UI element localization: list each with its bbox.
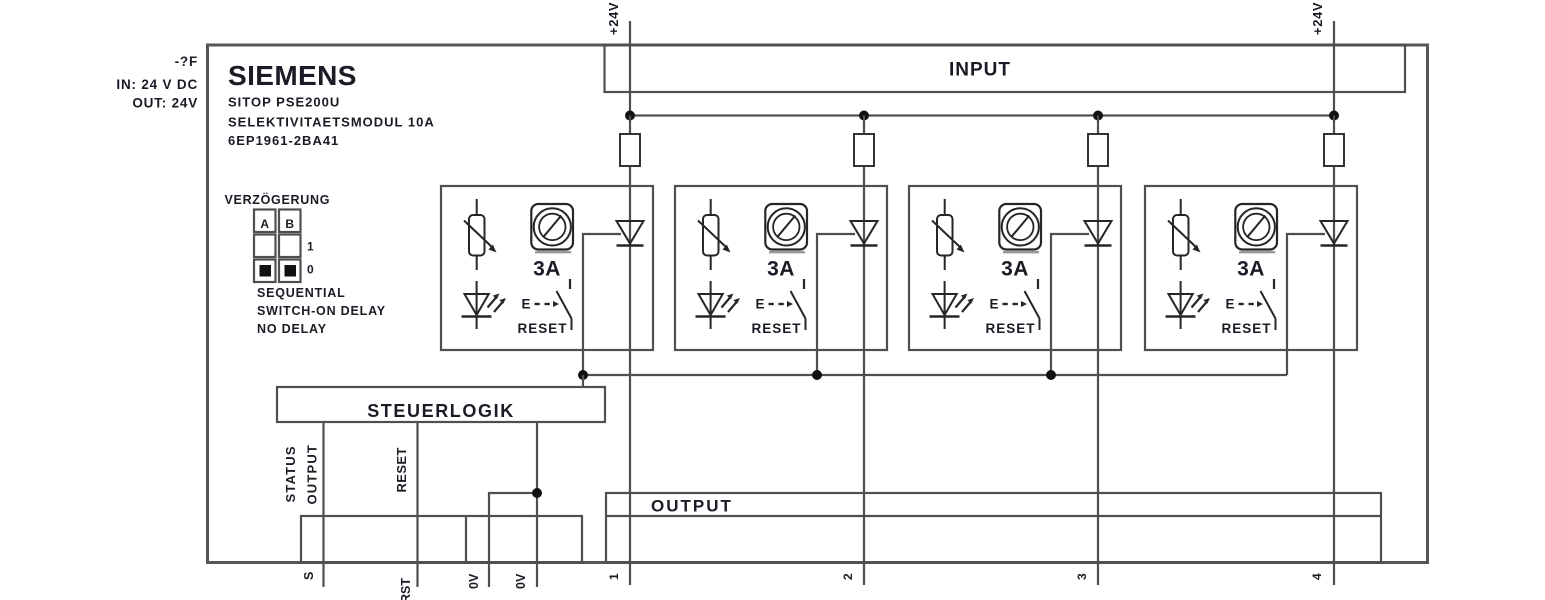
svg-text:3: 3 <box>1075 573 1089 580</box>
svg-text:OUTPUT: OUTPUT <box>305 444 320 505</box>
svg-text:1: 1 <box>307 240 314 254</box>
svg-text:OUTPUT: OUTPUT <box>651 497 733 516</box>
svg-text:4: 4 <box>1310 573 1324 580</box>
svg-text:STATUS: STATUS <box>283 445 298 502</box>
svg-text:SELEKTIVITAETSMODUL 10A: SELEKTIVITAETSMODUL 10A <box>228 115 435 130</box>
svg-text:OUT: 24V: OUT: 24V <box>132 96 198 111</box>
svg-text:+24V: +24V <box>606 2 621 35</box>
svg-text:0V: 0V <box>467 573 481 589</box>
svg-text:INPUT: INPUT <box>949 60 1011 81</box>
svg-text:1: 1 <box>607 573 621 580</box>
svg-text:NO DELAY: NO DELAY <box>257 322 327 336</box>
svg-text:RESET: RESET <box>394 447 409 492</box>
svg-text:A: A <box>260 217 269 231</box>
svg-text:VERZÖGERUNG: VERZÖGERUNG <box>225 192 331 207</box>
svg-text:STEUERLOGIK: STEUERLOGIK <box>367 401 515 421</box>
svg-text:S: S <box>302 572 316 580</box>
svg-text:IN: 24 V DC: IN: 24 V DC <box>116 77 198 92</box>
svg-text:6EP1961-2BA41: 6EP1961-2BA41 <box>228 133 339 148</box>
svg-text:SWITCH-ON DELAY: SWITCH-ON DELAY <box>257 304 386 318</box>
svg-text:B: B <box>285 217 294 231</box>
svg-text:0: 0 <box>307 263 314 277</box>
svg-text:SEQUENTIAL: SEQUENTIAL <box>257 286 346 300</box>
svg-text:-?F: -?F <box>175 54 198 69</box>
svg-text:SITOP PSE200U: SITOP PSE200U <box>228 95 340 110</box>
svg-text:2: 2 <box>841 573 855 580</box>
svg-text:+24V: +24V <box>1310 2 1325 35</box>
svg-text:RST: RST <box>399 578 413 600</box>
svg-text:SIEMENS: SIEMENS <box>228 60 357 91</box>
svg-text:0V: 0V <box>514 573 528 589</box>
